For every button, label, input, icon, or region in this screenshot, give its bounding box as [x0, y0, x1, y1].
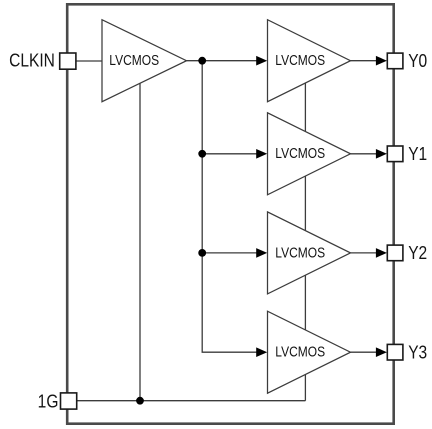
svg-text:LVCMOS: LVCMOS: [275, 52, 325, 69]
svg-text:LVCMOS: LVCMOS: [275, 244, 325, 261]
svg-text:CLKIN: CLKIN: [9, 50, 55, 71]
svg-text:Y0: Y0: [408, 51, 427, 72]
svg-text:Y2: Y2: [408, 243, 427, 264]
svg-text:LVCMOS: LVCMOS: [275, 343, 325, 360]
svg-text:LVCMOS: LVCMOS: [109, 52, 159, 69]
svg-text:Y3: Y3: [408, 342, 427, 363]
svg-text:Y1: Y1: [408, 144, 427, 165]
svg-text:1G: 1G: [38, 391, 59, 412]
svg-text:LVCMOS: LVCMOS: [275, 145, 325, 162]
